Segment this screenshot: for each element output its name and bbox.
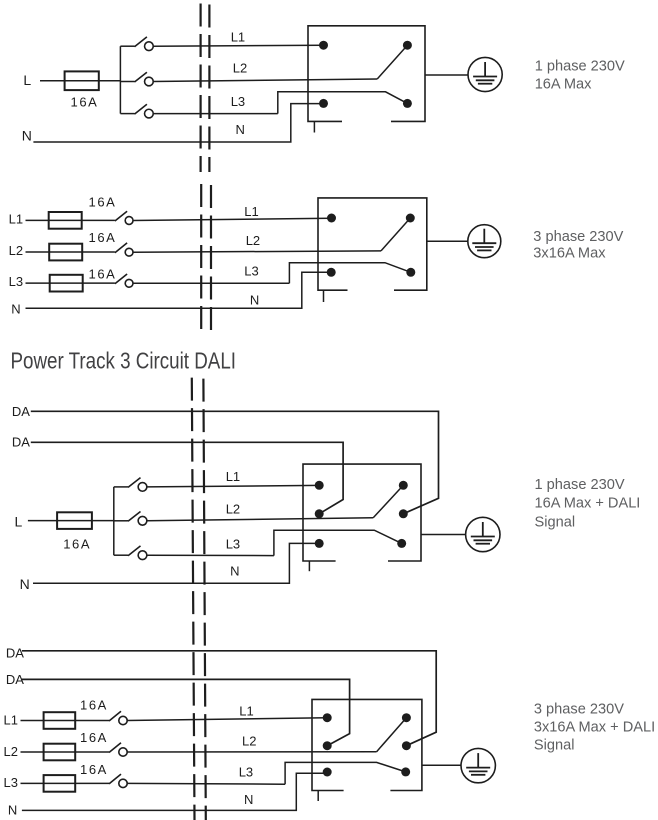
- svg-text:3x16A Max: 3x16A Max: [533, 246, 606, 262]
- svg-text:N: N: [11, 301, 20, 316]
- svg-text:L3: L3: [226, 537, 240, 552]
- svg-text:16A: 16A: [63, 537, 91, 552]
- svg-text:16A: 16A: [80, 762, 108, 777]
- svg-text:L2: L2: [226, 501, 240, 516]
- svg-text:L2: L2: [242, 734, 256, 749]
- svg-text:L1: L1: [244, 204, 258, 219]
- svg-text:16A: 16A: [89, 267, 117, 282]
- svg-text:L1: L1: [231, 30, 245, 45]
- svg-text:16A: 16A: [89, 195, 117, 210]
- svg-text:Signal: Signal: [534, 738, 575, 754]
- svg-text:16A Max: 16A Max: [535, 76, 592, 92]
- svg-text:3x16A Max + DALI: 3x16A Max + DALI: [534, 720, 655, 736]
- svg-text:16A: 16A: [71, 95, 99, 110]
- svg-text:L3: L3: [239, 765, 253, 780]
- svg-text:Signal: Signal: [535, 514, 576, 530]
- svg-text:N: N: [20, 576, 30, 592]
- svg-text:L3: L3: [4, 775, 18, 790]
- svg-text:L1: L1: [239, 703, 253, 718]
- svg-text:DA: DA: [6, 646, 24, 661]
- svg-text:L2: L2: [4, 744, 18, 759]
- svg-text:1 phase 230V: 1 phase 230V: [535, 477, 625, 493]
- svg-text:16A: 16A: [89, 230, 117, 245]
- svg-text:1 phase 230V: 1 phase 230V: [535, 59, 625, 75]
- svg-text:3 phase 230V: 3 phase 230V: [533, 229, 623, 245]
- svg-text:N: N: [244, 792, 253, 807]
- svg-text:N: N: [250, 293, 259, 308]
- svg-text:L1: L1: [9, 211, 23, 226]
- svg-text:3 phase 230V: 3 phase 230V: [534, 702, 624, 718]
- svg-text:Power Track 3 Circuit DALI: Power Track 3 Circuit DALI: [11, 348, 237, 375]
- svg-text:L2: L2: [246, 233, 260, 248]
- svg-text:DA: DA: [12, 434, 30, 449]
- svg-text:L: L: [15, 513, 23, 529]
- svg-text:N: N: [230, 564, 239, 579]
- svg-text:L3: L3: [9, 274, 23, 289]
- svg-text:L3: L3: [244, 264, 258, 279]
- svg-text:L3: L3: [231, 94, 245, 109]
- svg-text:L: L: [23, 72, 31, 88]
- svg-text:16A Max + DALI: 16A Max + DALI: [535, 495, 641, 511]
- svg-text:L1: L1: [4, 712, 18, 727]
- svg-text:N: N: [8, 803, 17, 818]
- svg-text:L2: L2: [9, 243, 23, 258]
- svg-text:L1: L1: [226, 469, 240, 484]
- svg-text:16A: 16A: [80, 698, 108, 713]
- svg-text:16A: 16A: [80, 730, 108, 745]
- svg-text:N: N: [236, 122, 245, 137]
- svg-text:L2: L2: [233, 60, 247, 75]
- svg-text:DA: DA: [12, 404, 30, 419]
- svg-text:N: N: [22, 128, 32, 144]
